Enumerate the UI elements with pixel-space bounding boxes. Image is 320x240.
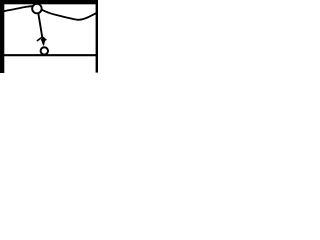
background [0,0,98,79]
axis wire (horizontal line) [0,54,98,56]
arrowhead right barb [43,37,47,40]
frame right border [96,0,98,73]
frame top border [0,0,98,4]
arrowhead tip mass [41,39,45,45]
arrowhead left barb [37,37,43,41]
node A (large open circle on curve) [32,4,42,14]
wire curve (wavy characteristic through node) [0,6,96,20]
frame left border [0,0,4,73]
arrow shaft from node A down to node B [38,13,43,43]
node B (small open circle on axis) [41,47,48,54]
